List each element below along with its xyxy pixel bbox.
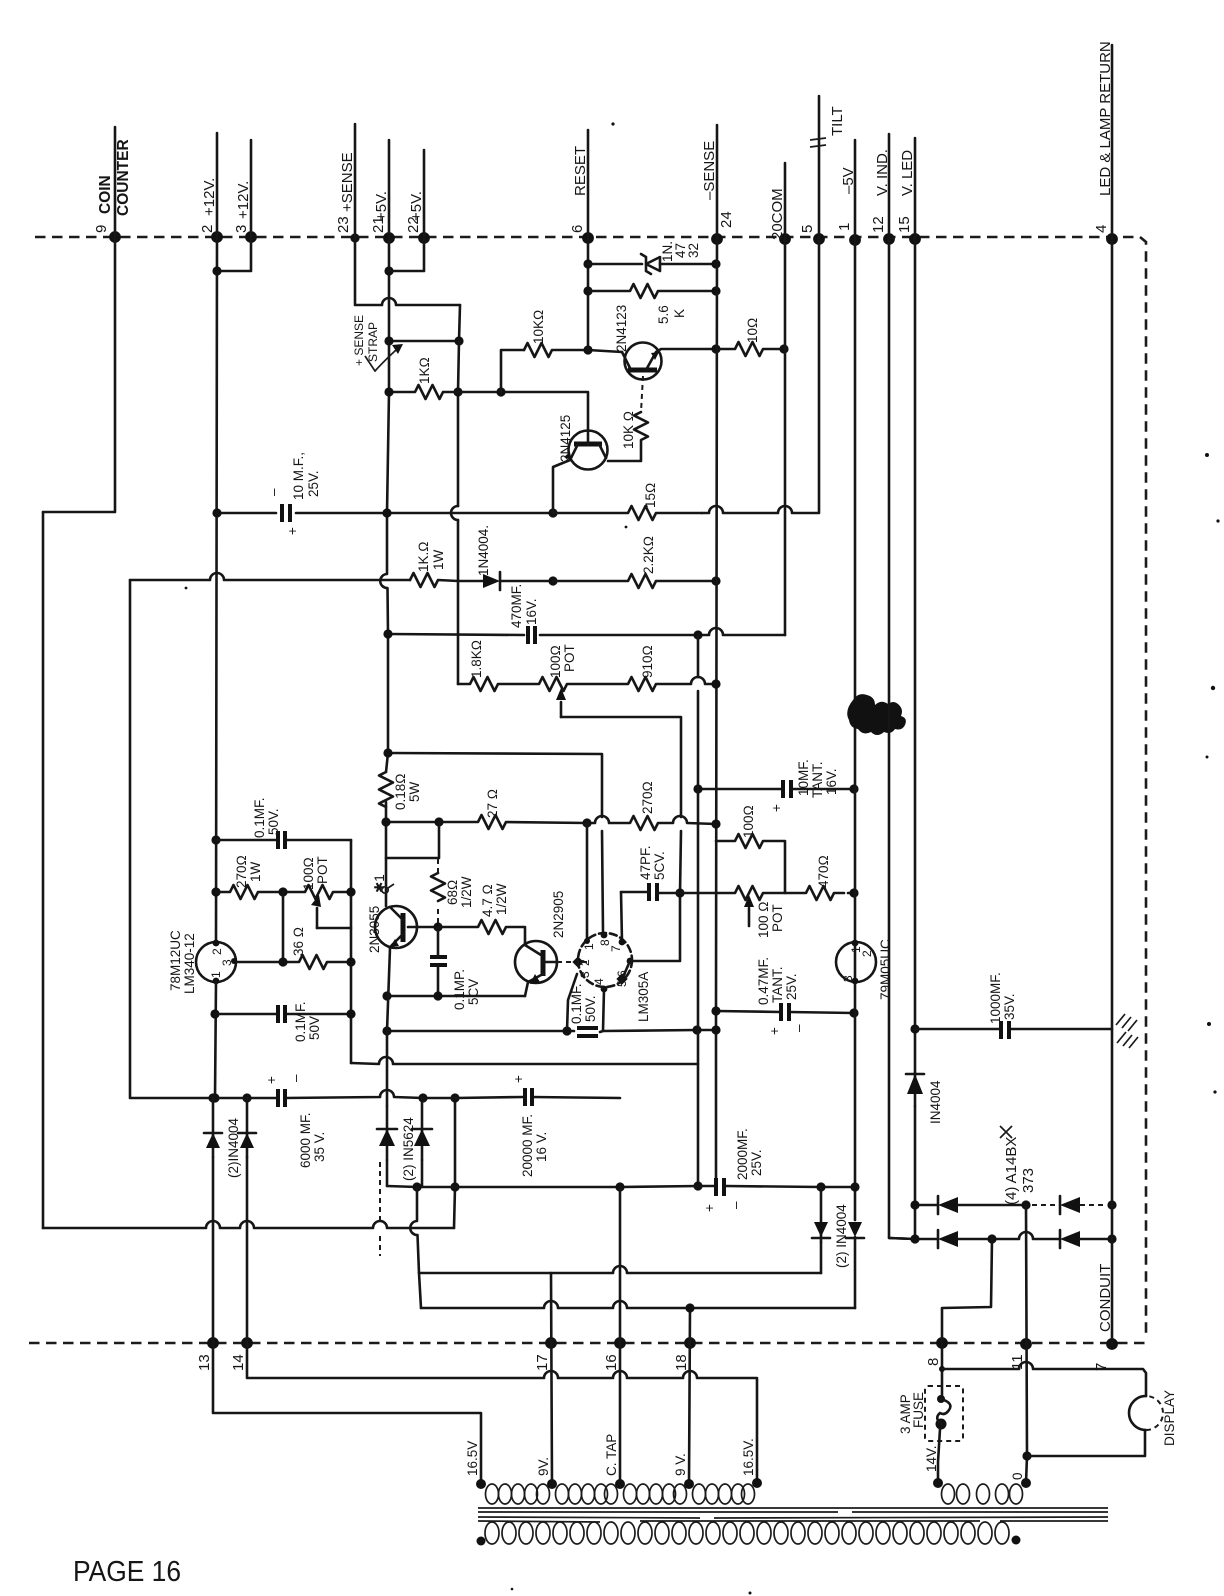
svg-text:C. TAP: C. TAP — [604, 1434, 619, 1476]
wire pin23 down jog right — [355, 238, 460, 305]
wire x283 between — [282, 892, 285, 962]
pin 15 — [909, 233, 921, 245]
diode D 1N4004 b — [246, 1098, 249, 1157]
svg-text:0: 0 — [1010, 1472, 1025, 1480]
cap 0.1 mid leads — [437, 927, 440, 996]
wire y684 line — [458, 677, 716, 691]
svg-text:POT: POT — [315, 856, 330, 884]
wire y996 line — [387, 995, 525, 998]
svg-text:9: 9 — [93, 225, 110, 233]
svg-text:(2) IN4004: (2) IN4004 — [834, 1204, 849, 1268]
svg-text:27 Ω: 27 Ω — [485, 789, 500, 818]
node y840 x215 — [211, 835, 220, 844]
resistor R 68ohm vertical — [431, 873, 445, 901]
wire y840 line — [216, 839, 351, 842]
svg-text:IN4004: IN4004 — [928, 1080, 943, 1124]
diode D 1N4004 mid — [458, 580, 483, 583]
svg-text:68Ω: 68Ω — [445, 880, 460, 905]
node y822 x439 — [434, 817, 443, 826]
wire x455 up to raw bus — [454, 1098, 455, 1228]
svg-text:9V.: 9V. — [536, 1457, 551, 1476]
svg-text:✱1: ✱1 — [372, 874, 387, 893]
node y349 x716 — [711, 344, 720, 353]
wire y841 100ohm line — [716, 834, 785, 893]
svg-text:9 V.: 9 V. — [673, 1453, 688, 1476]
svg-text:10 M.F.,: 10 M.F., — [291, 452, 306, 500]
pin 18 — [684, 1337, 696, 1349]
svg-text:1K.Ω: 1K.Ω — [416, 541, 431, 572]
node y754 x388 — [383, 748, 392, 757]
wire pin22 jog — [389, 238, 424, 271]
pot2 wiper arrow — [748, 908, 751, 926]
svg-text:+12V.: +12V. — [235, 181, 252, 219]
diode D 1N4004 d — [848, 1222, 862, 1237]
node y513 x387 — [382, 508, 391, 517]
svg-text:+12V.: +12V. — [201, 178, 218, 216]
svg-text:470Ω: 470Ω — [816, 855, 831, 888]
wire y1063 line — [351, 1057, 698, 1064]
svg-text:8: 8 — [598, 939, 612, 946]
wire sense strap right leg — [459, 305, 460, 341]
svg-text:1: 1 — [582, 943, 596, 950]
wire y893 pot2 470 line — [680, 886, 854, 900]
svg-text:V. IND.: V. IND. — [874, 149, 891, 196]
wire y1031 line — [387, 1030, 716, 1032]
wire y341 sense line — [389, 340, 459, 343]
wire y1273 line — [419, 1266, 821, 1273]
svg-text:+SENSE: +SENSE — [339, 152, 356, 212]
svg-text:16V.: 16V. — [524, 598, 539, 625]
dash base 2N4123 to 10K — [641, 376, 643, 412]
svg-text:78M12UC: 78M12UC — [168, 930, 183, 991]
79m05 edge dots — [852, 940, 859, 947]
node y1029 x915 — [910, 1024, 919, 1033]
wire y513 cap to sense hop — [296, 512, 553, 515]
wire pin6 vertical — [587, 238, 590, 350]
wire pin9 down — [43, 237, 115, 512]
svg-text:2N4125: 2N4125 — [558, 415, 573, 462]
svg-text:+: + — [285, 527, 300, 535]
node x458 y392 — [453, 387, 462, 396]
capacitor C 20000MF 16V plates — [523, 1088, 527, 1106]
svg-text:16.5V.: 16.5V. — [741, 1438, 756, 1476]
svg-text:14V.: 14V. — [924, 1445, 939, 1472]
node y1014 x215 — [210, 1009, 219, 1018]
wire pin2 stub up — [216, 133, 219, 237]
node y513 x553 — [548, 508, 557, 517]
svg-text:0.47MF.: 0.47MF. — [756, 957, 771, 1005]
pin 16 — [614, 1337, 626, 1349]
node y1031 x387 — [382, 1026, 391, 1035]
node row1 x1112 — [1107, 1200, 1116, 1209]
bottom connector dashed bus — [29, 1342, 1146, 1345]
svg-text:3: 3 — [233, 225, 250, 233]
svg-text:TANT.: TANT. — [810, 762, 825, 799]
node y1031 x716 — [711, 1025, 720, 1034]
svg-text:2N2905: 2N2905 — [551, 891, 566, 938]
node y892 x215 — [211, 887, 220, 896]
svg-text:16: 16 — [603, 1354, 620, 1371]
svg-text:32: 32 — [686, 243, 701, 258]
wire y1011 line — [716, 1011, 854, 1013]
svg-text:1KΩ: 1KΩ — [417, 357, 432, 384]
svg-text:–SENSE: –SENSE — [701, 141, 718, 200]
svg-text:50V: 50V — [307, 1016, 322, 1040]
wire x421 riser — [419, 1273, 421, 1308]
svg-text:35 V.: 35 V. — [312, 1132, 327, 1162]
svg-text:–5V: –5V — [840, 167, 857, 194]
svg-text:+5V.: +5V. — [373, 191, 390, 221]
svg-text:79M05UC: 79M05UC — [878, 939, 893, 1000]
resistor R 10ohm — [716, 342, 784, 356]
wire pin1 long vertical — [854, 240, 857, 1308]
svg-text:16 V.: 16 V. — [534, 1132, 549, 1162]
node pin21 y271 — [384, 266, 393, 275]
svg-text:20COM: 20COM — [769, 188, 786, 240]
node y1186 x855 — [850, 1182, 859, 1191]
node y1098 x215 — [210, 1093, 219, 1102]
svg-text:16.5V: 16.5V — [465, 1441, 480, 1476]
wire y789 line — [698, 788, 854, 791]
diode Z 1N4732 zener — [646, 257, 660, 271]
wire pin8 to fuse — [941, 1343, 944, 1398]
svg-text:POT: POT — [562, 644, 577, 672]
pin 12 — [883, 233, 895, 245]
LM305 pin56 internal lead — [623, 961, 630, 977]
svg-text:+: + — [702, 1204, 717, 1212]
IC U LM305A dashed circle — [578, 933, 632, 987]
svg-text:5W: 5W — [407, 781, 422, 802]
svg-text:10MF.: 10MF. — [796, 759, 811, 796]
pin 1 — [849, 234, 861, 246]
wire x992 to pin8 — [942, 1239, 992, 1343]
wire x821 to y1273 — [820, 1242, 823, 1273]
wire 47PF line — [621, 892, 680, 893]
svg-text:6: 6 — [569, 225, 586, 233]
wire y513 hops over pin24 pin20 to pin5 — [702, 239, 819, 513]
svg-text:50V.: 50V. — [583, 995, 598, 1022]
pin 7 — [1106, 1338, 1118, 1350]
node y349 x784 — [779, 344, 788, 353]
svg-text:47PF.: 47PF. — [638, 845, 653, 880]
bridge row1 y1205 — [915, 1204, 938, 1207]
svg-text:LM340-12: LM340-12 — [182, 933, 197, 994]
svg-text:–: – — [288, 1074, 303, 1082]
svg-text:50V.: 50V. — [266, 808, 281, 835]
transformer T1 secondary taps — [476, 1479, 486, 1489]
svg-text:+5V.: +5V. — [408, 191, 425, 221]
wire pin4 pin7 vertical — [1111, 239, 1114, 1344]
wire x351 bus — [350, 840, 353, 1063]
node base junction — [433, 922, 442, 931]
LM305 pin 8 dot — [601, 932, 608, 939]
node x351 y1014 — [346, 1009, 355, 1018]
wire fuse to 14V tap — [938, 1429, 940, 1483]
wire pin9 stub up — [114, 127, 117, 237]
capacitor C 10MF 25V plates — [280, 504, 284, 522]
svg-text:5: 5 — [799, 225, 816, 233]
svg-text:13: 13 — [196, 1354, 213, 1371]
node y1013 x854 — [849, 1008, 858, 1017]
node y1308 x690 — [685, 1303, 694, 1312]
wire y822 line — [386, 815, 716, 830]
svg-text:2N3055: 2N3055 — [367, 906, 382, 953]
pin 20 — [779, 233, 791, 245]
wire pin21 stub up — [388, 140, 391, 238]
primary end dots — [477, 1537, 486, 1546]
svg-text:100Ω: 100Ω — [548, 645, 563, 678]
pin 2 — [211, 231, 223, 243]
LM305 pin3 lead — [567, 974, 577, 1031]
wire pin3 stub up — [250, 140, 253, 237]
svg-text:+: + — [264, 1076, 279, 1084]
wire pin11 vertical — [1026, 1205, 1027, 1483]
svg-text:(2) IN5624: (2) IN5624 — [401, 1117, 416, 1181]
svg-text:25V.: 25V. — [749, 1149, 764, 1176]
svg-text:1: 1 — [849, 946, 863, 953]
svg-text:+: + — [769, 804, 784, 812]
svg-text:1N4004.: 1N4004. — [476, 525, 491, 576]
svg-text:25V.: 25V. — [306, 470, 321, 497]
svg-text:TILT: TILT — [829, 106, 846, 136]
pin 22 — [418, 232, 430, 244]
svg-text:0.1MF.: 0.1MF. — [252, 797, 267, 838]
wire y1308 line — [421, 1301, 855, 1308]
right border dashed — [1140, 237, 1146, 1338]
wire pin17 vertical — [551, 1273, 552, 1484]
svg-text:35V.: 35V. — [1002, 993, 1017, 1020]
transformer core lines — [478, 1508, 1108, 1522]
pin 5 — [813, 233, 825, 245]
diode D A14BX 4 — [1060, 1231, 1080, 1247]
svg-text:16V.: 16V. — [824, 768, 839, 795]
break marks tilt wire — [810, 138, 826, 140]
wire pin6 stub up — [587, 130, 590, 238]
svg-text:5.6: 5.6 — [656, 305, 671, 324]
svg-text:COIN: COIN — [97, 175, 114, 214]
diode D A14BX 1 — [938, 1197, 958, 1213]
wire x698 mid vertical — [697, 635, 700, 1186]
node y892 x283 — [278, 887, 287, 896]
wire y892 line — [216, 885, 351, 899]
node x455 y1098 — [450, 1093, 459, 1102]
dash lead 68ohm bottom — [437, 909, 439, 923]
svg-text:LM305A: LM305A — [636, 972, 651, 1022]
svg-text:1W: 1W — [431, 549, 446, 570]
svg-text:4: 4 — [1093, 225, 1110, 233]
pin 23 — [350, 233, 359, 242]
capacitor C 0.1MF 50V lm305 plates — [577, 1026, 598, 1030]
svg-text:CONDUIT: CONDUIT — [1097, 1264, 1114, 1332]
svg-text:15Ω: 15Ω — [643, 483, 658, 508]
node y1098 x423 — [418, 1093, 427, 1102]
node y1031 x697 — [692, 1025, 701, 1034]
svg-text:1W: 1W — [248, 861, 263, 882]
primary winding coils — [485, 1522, 1009, 1544]
svg-text:2: 2 — [210, 948, 224, 955]
node x455 y1187 — [450, 1182, 459, 1191]
wire pin1 stub up — [854, 140, 857, 240]
node y996 x387 — [382, 991, 391, 1000]
svg-text:1/2W: 1/2W — [494, 883, 509, 915]
wire pin5 tilt stub up — [818, 96, 821, 239]
node x698 y1186 — [693, 1181, 702, 1190]
node y580 x553 — [548, 576, 557, 585]
wire wiper to x683 — [561, 717, 681, 961]
lm340 pin3 lead — [236, 961, 283, 964]
node y893 x854 — [849, 888, 858, 897]
lm340 edge dots — [213, 940, 220, 947]
svg-text:270Ω: 270Ω — [640, 781, 655, 814]
wire y580 line left — [130, 573, 410, 580]
svg-text:1/2W: 1/2W — [459, 876, 474, 908]
svg-text:36 Ω: 36 Ω — [291, 927, 306, 956]
wire pin13 vertical — [213, 1157, 481, 1484]
resistor R 2.2Kohm — [553, 574, 716, 588]
svg-text:8: 8 — [925, 1358, 942, 1366]
LM305 pin 7 lead — [621, 892, 622, 942]
svg-text:25V.: 25V. — [784, 973, 799, 1000]
node y341 x389 — [384, 336, 393, 345]
svg-text:2: 2 — [199, 225, 216, 233]
wire pin15 long vertical — [914, 239, 917, 1239]
pin 17 — [545, 1337, 557, 1349]
svg-text:0.18Ω: 0.18Ω — [393, 773, 408, 810]
wire y1014 line — [215, 1013, 351, 1016]
pin 11 — [1020, 1338, 1032, 1350]
node y291 x716 — [711, 286, 720, 295]
node y580 x716 — [711, 576, 720, 585]
node y1186 x821 — [816, 1182, 825, 1191]
conduit hatch marks — [1116, 1014, 1138, 1048]
svg-text:TANT.: TANT. — [770, 967, 785, 1004]
case circle arrow — [382, 887, 388, 893]
wire pot1L wiper to x351 — [317, 927, 351, 930]
capacitor C 10MF TANT plates — [781, 780, 785, 798]
svg-text:0.1MP.: 0.1MP. — [452, 969, 467, 1010]
wire x501 up — [501, 350, 524, 392]
svg-text:2N4123: 2N4123 — [614, 305, 629, 352]
svg-text:0.1MF.: 0.1MF. — [293, 1001, 308, 1042]
wire left bus x43 — [42, 512, 45, 1228]
wire pin20 stub up — [784, 163, 787, 239]
resistor R 10Kohm upper — [524, 343, 622, 357]
wire y858 ladder — [386, 822, 439, 858]
wire pin2 main vertical — [216, 237, 217, 942]
wire x587 to LM305 pin1 — [586, 823, 589, 941]
svg-text:–: – — [791, 1024, 806, 1032]
node x351 y892 — [346, 887, 355, 896]
svg-text:0.1MF.: 0.1MF. — [569, 983, 584, 1024]
node y635 x698 — [693, 630, 702, 639]
diode D IN4004 right col — [914, 1073, 917, 1106]
svg-text:10K Ω: 10K Ω — [621, 411, 636, 449]
node y392 x389 — [384, 387, 393, 396]
node x679 y893 — [675, 888, 684, 897]
svg-text:K: K — [672, 309, 687, 318]
pin 6 — [582, 232, 594, 244]
sense strap arrow — [365, 350, 396, 371]
wire y513 12V cap line left — [217, 512, 276, 515]
wire pin20 vertical — [784, 239, 787, 635]
node pin6 y291 — [583, 286, 592, 295]
diode D 1N5624 b — [421, 1098, 424, 1160]
aux winding coils — [942, 1484, 1023, 1504]
dash row1 right — [1080, 1204, 1106, 1206]
wire y962 36ohm line — [283, 955, 351, 969]
svg-text:7: 7 — [609, 945, 623, 952]
svg-text:14: 14 — [230, 1354, 247, 1371]
resistor R 10Kohm lower vertical — [608, 412, 648, 461]
svg-text:1000MF.: 1000MF. — [988, 972, 1003, 1024]
LM305 pin1 dot — [584, 938, 590, 944]
diode D 1N4004 c — [820, 1187, 823, 1242]
svg-text:4: 4 — [592, 978, 606, 985]
pin 8 — [936, 1337, 948, 1349]
svg-text:FUSE: FUSE — [911, 1392, 926, 1428]
node x351 y962 — [346, 957, 355, 966]
resistor R 0.18ohm 5W vertical — [379, 772, 393, 807]
svg-text:DISPLAY: DISPLAY — [1162, 1390, 1177, 1446]
node y1186 x417 — [412, 1182, 421, 1191]
LM305 pin4 lead — [603, 989, 604, 1031]
node y789 x854 — [849, 784, 858, 793]
node y341 x459 — [454, 336, 463, 345]
svg-text:1.8KΩ: 1.8KΩ — [469, 640, 484, 678]
node pin6 y350 — [583, 345, 592, 354]
svg-text:20000 MF.: 20000 MF. — [520, 1114, 535, 1177]
svg-text:10Ω: 10Ω — [745, 318, 760, 343]
node row2 x992 — [987, 1234, 996, 1243]
svg-text:373: 373 — [1020, 1168, 1037, 1193]
node y684 x716 — [711, 679, 720, 688]
svg-text:POT: POT — [770, 904, 785, 932]
svg-text:STRAP: STRAP — [366, 322, 380, 362]
wire y635 line — [388, 628, 785, 635]
transistor Q 2N4125 — [569, 431, 608, 470]
wire 2N3055 emitter down — [387, 948, 390, 1106]
svg-text:LED & LAMP RETURN: LED & LAMP RETURN — [1097, 41, 1114, 196]
node LM305 pin56 edge — [627, 958, 634, 965]
wire x422 to y1186 — [421, 1160, 424, 1186]
svg-text:100Ω: 100Ω — [741, 805, 756, 838]
svg-text:RESET: RESET — [572, 146, 589, 196]
hop x458 over y513: drawn as gap + arc — [451, 506, 458, 520]
wire pin18 vertical — [689, 1308, 690, 1484]
svg-text:4.7 Ω: 4.7 Ω — [480, 884, 495, 917]
node y1098 x247 — [242, 1093, 251, 1102]
wire pin21 long vertical — [380, 238, 389, 906]
wire pin12 stub up — [888, 134, 891, 239]
wire pin24 stub up — [716, 125, 719, 239]
node pin6 y264 — [583, 259, 592, 268]
capacitor C 2000MF 25V plates — [714, 1178, 718, 1196]
svg-text:5CV.: 5CV. — [652, 851, 667, 880]
wire pin24 long vertical — [716, 239, 717, 1179]
pin 14 — [241, 1337, 253, 1349]
svg-text:2000MF.: 2000MF. — [735, 1128, 750, 1180]
diode D A14BX 3 — [1060, 1197, 1080, 1213]
wire pin4 stub up — [1111, 45, 1114, 239]
node y1098 x213 — [208, 1093, 217, 1102]
svg-text:100 Ω: 100 Ω — [756, 901, 771, 938]
wire y291 5.6K line — [588, 284, 716, 298]
pin 24 — [711, 233, 723, 245]
wire pin22 stub up — [423, 150, 426, 238]
bridge row2 y1239 — [889, 1238, 938, 1239]
regulator U 78M12UC LM340-12 — [196, 942, 236, 982]
diode D 1N5624 a — [386, 1106, 389, 1160]
